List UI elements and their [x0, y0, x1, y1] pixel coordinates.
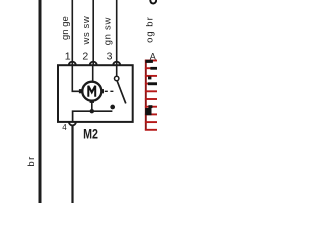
svg-text:og br: og br	[144, 16, 155, 43]
svg-text:2: 2	[82, 50, 88, 62]
svg-text:gn ge: gn ge	[60, 16, 71, 40]
svg-text:br: br	[26, 155, 37, 166]
svg-text:1: 1	[65, 50, 71, 62]
svg-text:4: 4	[62, 123, 67, 132]
svg-text:ws sw: ws sw	[81, 16, 92, 46]
svg-text:M2: M2	[83, 127, 98, 142]
svg-text:3: 3	[107, 51, 113, 63]
svg-text:gn sw: gn sw	[103, 17, 114, 45]
